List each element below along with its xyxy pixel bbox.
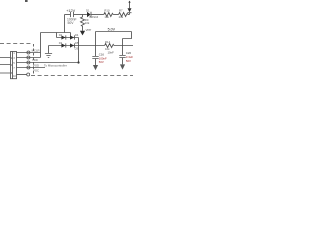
dashed boundary horizontal left <box>0 43 32 45</box>
svg-text:D4: D4 <box>75 33 79 37</box>
svg-text:D3: D3 <box>75 47 79 51</box>
wire rail to R7 <box>113 14 118 16</box>
svg-text:To Microcontroller: To Microcontroller <box>44 64 67 68</box>
connector left pins <box>0 58 11 74</box>
wire y45 to right edge <box>114 45 133 47</box>
arrow up off-page <box>128 1 130 3</box>
wire vertical x122 <box>122 39 124 56</box>
svg-text:10k: 10k <box>104 15 109 19</box>
svg-text:R7: R7 <box>119 8 123 12</box>
svg-text:5.0V: 5.0V <box>108 28 116 32</box>
svg-text:50V: 50V <box>68 21 75 25</box>
svg-text:50V: 50V <box>126 59 131 63</box>
wire +12V vertical branch <box>64 15 66 33</box>
arrow down VPP <box>80 31 85 36</box>
diode D2b <box>70 35 74 39</box>
pin line VSS y62 to bus <box>17 62 79 64</box>
svg-text:R10: R10 <box>104 8 110 12</box>
pin line bottom y74 <box>17 74 28 76</box>
diode D6 vertical top right <box>129 2 131 8</box>
wire row1 <box>57 37 79 39</box>
stray mark top left <box>25 0 28 2</box>
wire rail to R10 <box>91 14 103 16</box>
svg-text:10nF: 10nF <box>108 51 115 55</box>
wire output y45 <box>79 45 105 47</box>
wire vertical x95 <box>95 32 97 57</box>
dashed boundary bottom <box>31 75 133 77</box>
wire corner into row1 mid <box>70 33 72 37</box>
capacitor C20 <box>119 56 125 58</box>
wire rail middle segment <box>74 14 87 16</box>
wire bus line left y32 <box>41 32 71 34</box>
diode D1 BAS16 on rail <box>87 12 91 18</box>
resistor R1 <box>105 44 114 48</box>
resistor R10 <box>104 13 113 17</box>
svg-text:D1: D1 <box>86 9 90 13</box>
svg-text:VPP: VPP <box>86 28 92 32</box>
svg-text:50V: 50V <box>99 60 104 64</box>
pin line VDD y57 <box>17 57 41 59</box>
connector pin numbers <box>11 52 17 78</box>
pin line MCLR y52 <box>17 52 41 54</box>
svg-text:BAS16: BAS16 <box>90 15 99 19</box>
pad circle 3 <box>27 61 30 64</box>
dashed boundary vertical <box>33 44 35 75</box>
pad circle 2 <box>27 56 30 59</box>
pad circle 4 <box>27 66 30 69</box>
pad circle 1 <box>27 51 30 54</box>
wire stub row1 left <box>56 33 58 38</box>
svg-text:R14: R14 <box>105 40 111 44</box>
capacitor C16 <box>92 57 98 59</box>
ground symbol <box>48 46 50 54</box>
svg-text:10k: 10k <box>85 21 90 25</box>
svg-text:VDD: VDD <box>32 58 38 62</box>
capacitor C1 inline 100nF 50V <box>71 12 74 17</box>
wire corner right <box>123 32 132 39</box>
diode D3b <box>70 43 74 47</box>
arrow to gnd mid <box>93 65 98 70</box>
wire row2 <box>49 45 79 47</box>
pad circle 5 <box>27 73 30 76</box>
wire bus vertical x78 <box>78 38 80 63</box>
wire 5.0V line <box>96 31 132 33</box>
svg-text:20k: 20k <box>119 15 124 19</box>
arrow to gnd right <box>120 64 125 69</box>
svg-text:D2: D2 <box>59 33 63 37</box>
svg-text:MCLR: MCLR <box>32 49 40 53</box>
resistor R9 vertical <box>81 15 85 31</box>
diode D3a <box>61 43 65 47</box>
connector J1 body <box>11 52 17 79</box>
wire rail right end <box>128 14 130 16</box>
wire +12V rail left segment <box>65 14 71 16</box>
diode D2a <box>61 35 65 39</box>
resistor R7 <box>119 13 128 17</box>
svg-text:D3: D3 <box>59 41 63 45</box>
junction <box>77 61 79 63</box>
pin line PGC y67 <box>17 67 46 69</box>
wire vertical x40 up to bus line <box>40 33 42 58</box>
